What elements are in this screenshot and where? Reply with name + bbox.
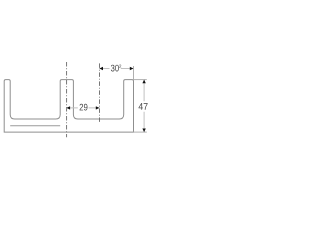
arrow left of 29 dim <box>67 106 71 109</box>
dash-dot extension line at x=99.5 <box>99 63 101 123</box>
arrow bottom of 47 dim <box>142 129 145 133</box>
arrow top of 47 dim <box>142 80 145 84</box>
arrow right of 30 dim <box>130 67 134 70</box>
centerline (dash-dot) of middle wall <box>66 62 68 137</box>
extension line bottom right (for 47 dim) <box>134 131 147 133</box>
extension line top right (for 47 dim) <box>134 79 147 81</box>
dimension line 30 (top) <box>99 68 133 70</box>
profile outline (U-channel section with three walls) <box>4 80 133 133</box>
arrow left of 30 dim <box>99 67 103 70</box>
inner recess edge line in left channel <box>10 125 60 127</box>
label 30 superscript 2 <box>111 65 121 72</box>
label 29 <box>80 104 88 111</box>
arrow right of 29 dim <box>96 106 100 109</box>
extension line above right wall (for 30 dim) <box>133 66 135 80</box>
dimension line 29 (middle) <box>67 107 100 109</box>
dimension line 47 (right, vertical) <box>143 80 145 133</box>
label 47 <box>139 103 148 110</box>
